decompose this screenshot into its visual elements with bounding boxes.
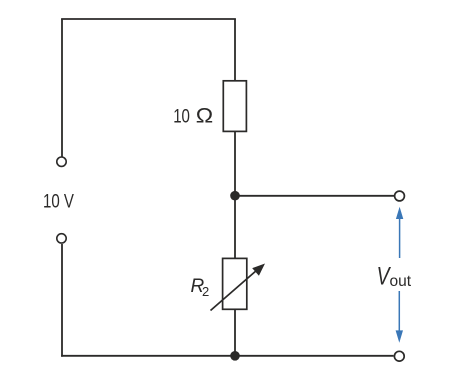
battery terminal bottom (open circle)	[57, 234, 66, 243]
svg-text:10 V: 10 V	[43, 190, 74, 212]
variable resistor R2 (arrow)	[211, 264, 266, 311]
battery terminal top (open circle)	[57, 157, 66, 166]
output terminal bottom (open circle)	[394, 351, 404, 361]
label Vout	[377, 262, 412, 290]
Vout arrow down (blue)	[396, 291, 403, 343]
node B (junction dot)	[230, 351, 240, 361]
svg-text:2: 2	[202, 284, 209, 299]
label R2	[191, 276, 210, 299]
svg-text:10: 10	[173, 105, 190, 127]
wire: top horizontal	[61, 18, 236, 20]
wire: resistor bottom to node A and on to R2	[234, 131, 236, 259]
svg-text:out: out	[390, 273, 412, 290]
wire: bottom horizontal	[61, 355, 393, 357]
svg-text:Ω: Ω	[196, 103, 213, 127]
label 10 ohm	[173, 103, 213, 127]
wire: vertical from top wire to resistor R1	[234, 19, 236, 81]
wire: R2 bottom to node B	[234, 309, 236, 356]
wire: node A to right output terminal	[235, 195, 394, 197]
node A (junction dot)	[230, 191, 240, 201]
wire: left vertical lower segment	[61, 244, 63, 357]
Vout arrow up (blue)	[396, 207, 403, 258]
output terminal top (open circle)	[395, 191, 405, 201]
resistor 10 ohm (body)	[223, 81, 246, 132]
variable resistor R2 (body)	[223, 258, 247, 309]
wire: left vertical upper segment	[61, 19, 63, 157]
